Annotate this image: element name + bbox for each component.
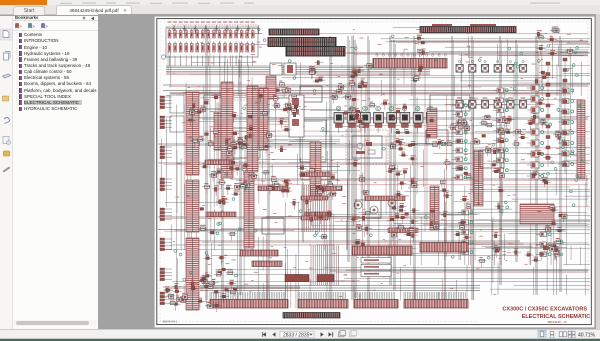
bookmarks tool (selected) (1, 29, 13, 40)
actuator stack SV2 (493, 88, 508, 173)
margin connector stub MS8 (160, 292, 172, 305)
resistor array RA5 (206, 212, 236, 217)
scan wash overlay (155, 17, 594, 327)
component cluster G9 (349, 160, 372, 250)
bottom bus lines (200, 286, 480, 291)
harness connector L4 (186, 92, 199, 175)
harness connector R3 (577, 100, 585, 178)
component cluster G2 (225, 112, 255, 155)
bookmark tree lines (13, 30, 98, 115)
continuous facing button (568, 331, 575, 338)
component cluster G30 (348, 98, 407, 132)
navigation icon strip (0, 16, 13, 329)
file button (orange) (0, 0, 47, 5)
bottom connector strip CS4 (420, 243, 468, 253)
component cluster G6 (261, 171, 299, 210)
resistor array RA4 (318, 186, 342, 191)
resistor array RA1 (205, 160, 231, 165)
terminal box T1 (170, 95, 184, 113)
power bus bar B1 (269, 29, 319, 35)
controller box U2 (300, 120, 326, 162)
component cluster G28 (456, 119, 513, 144)
harness connector L5 (186, 180, 199, 232)
module box U9 (426, 130, 448, 144)
wire mesh (161, 28, 590, 308)
margin connector stub MS5 (160, 208, 172, 221)
module box U7 (480, 150, 504, 168)
harness connector C4 (310, 142, 321, 200)
actuator stack SV3 (527, 85, 544, 179)
hyperlink annotation circles (174, 35, 583, 281)
component cluster G17 (257, 81, 299, 115)
bottom connector row CR2 (210, 292, 468, 308)
component cluster G26 (348, 64, 373, 89)
margin connector stub MS2 (160, 116, 172, 129)
component cluster G18 (482, 115, 527, 145)
module box U8 (355, 200, 381, 218)
component cluster G1 (186, 94, 221, 147)
component cluster G22 (427, 117, 471, 149)
panel header (13, 15, 98, 20)
link circle column (221, 95, 224, 148)
continuous view button (550, 331, 554, 338)
harness connector L6 (244, 172, 254, 248)
next page button (321, 332, 324, 337)
relay module row K1-K8 (334, 106, 436, 133)
controller box U1 (226, 128, 260, 158)
inner margin dashed line (160, 22, 588, 322)
bookmark entries (13, 32, 97, 38)
title block text (502, 306, 590, 324)
bottom connector strip CS1 (240, 250, 278, 256)
bottom connector strip CS3 (352, 246, 412, 255)
bookmarks panel (13, 16, 98, 329)
margin connector stub MS6 (160, 238, 172, 251)
harness connector R1 (430, 186, 439, 230)
harness connector C1 (221, 82, 233, 178)
svg-text:40.71%: 40.71% (578, 332, 596, 338)
resistor array RA2 (258, 186, 288, 191)
svg-text:2833 / 2835: 2833 / 2835 (283, 332, 310, 338)
facing view button (559, 331, 566, 336)
monitor box U4 (352, 136, 382, 158)
label box stack LB1 (361, 258, 391, 277)
junction boxes JB1 (270, 63, 296, 75)
resistor array RA6 (305, 212, 331, 217)
title block area (478, 295, 589, 324)
harness connector C5 (266, 76, 276, 99)
margin connector stub MS7 (160, 268, 172, 281)
monitor internals (356, 142, 375, 154)
margin connector stub MS3 (160, 146, 172, 159)
fuse panel F1-F32 (161, 22, 258, 67)
tab close button (123, 8, 127, 14)
terminal box T2 (170, 116, 184, 132)
component cluster G10 (386, 165, 419, 241)
component cluster G24 (390, 207, 440, 242)
last page button (329, 332, 334, 337)
module box U6 (300, 86, 322, 102)
bottom terminal block TB1 (285, 275, 334, 282)
harness connector C2 (247, 86, 258, 172)
component cluster G20 (163, 271, 237, 299)
actuator stack SV1 (452, 103, 467, 180)
center pin bundle PB0 (311, 245, 338, 285)
previous page button (272, 332, 275, 337)
menu text hints (50, 0, 590, 5)
component cluster G29 (535, 71, 565, 160)
component cluster G3 (263, 95, 301, 152)
margin connector stub MS1 (160, 96, 172, 109)
document tab bar (0, 5, 600, 16)
panel toolbar icons (13, 22, 98, 30)
schematic page sheet (154, 16, 595, 328)
component cluster G25 (307, 61, 325, 82)
bottom power bar PB1 (283, 313, 340, 319)
center cable bundle (301, 185, 328, 232)
connector strip X3 (373, 54, 447, 68)
panel horizontal scrollbar (14, 320, 97, 326)
first page button (262, 332, 266, 337)
component cluster G8 (203, 255, 236, 291)
power bus bar B2 (420, 24, 516, 33)
device box D1 (289, 95, 304, 137)
resistor array RA3 (300, 172, 330, 177)
status bar (0, 329, 600, 340)
junction box U5 (262, 218, 284, 234)
single page view button (selected) (538, 330, 546, 338)
switch panel U10 (204, 95, 222, 109)
horizontal trunk buses (158, 41, 588, 289)
schematic border frame (157, 19, 592, 325)
vertical scrollbar (596, 14, 600, 329)
dashed enclosure E1 (222, 100, 266, 162)
relay row K11-K16 (456, 60, 527, 72)
component cluster G16 (330, 80, 365, 123)
harness connector R4 (520, 204, 554, 224)
window bottom edge (0, 338, 600, 339)
component cluster G7 (298, 165, 341, 239)
margin connector stub MS4 (160, 178, 172, 191)
history buttons (339, 330, 346, 336)
relay row K17-K22 (456, 98, 527, 109)
connector strip X1 (268, 38, 336, 47)
gauge cluster M1 (354, 199, 396, 214)
component cluster G31 (411, 35, 429, 82)
controller box U3 (430, 95, 470, 111)
component cluster G11 (440, 159, 473, 244)
document background (98, 14, 600, 329)
component cluster G21 (166, 283, 229, 312)
actuator stack SV5 (458, 210, 473, 255)
active document tab (56, 5, 132, 15)
harness connector L8 (186, 238, 199, 310)
actuator stack SV6 (536, 232, 551, 257)
page number box (280, 331, 314, 338)
vertical trunk buses (206, 25, 562, 300)
start tab (13, 6, 45, 15)
component cluster G5 (224, 164, 258, 195)
component cluster G4 (198, 159, 241, 240)
application menu bar (0, 0, 600, 5)
main harness bundle (166, 66, 430, 75)
battery feed tree (170, 25, 262, 34)
component cluster G13 (526, 74, 552, 187)
harness connector RH1 (427, 108, 437, 138)
wire number labels (165, 29, 583, 299)
dashed enclosure E2 (346, 130, 388, 164)
component cluster G15 (388, 129, 418, 165)
resistor array RB1 (365, 196, 405, 201)
component cluster G23 (477, 243, 561, 267)
harness connector R2 (474, 150, 483, 206)
component cluster G12 (483, 146, 504, 238)
harness connector L7 (214, 112, 222, 150)
component cluster G14 (541, 204, 569, 261)
sensor chain SN1 (546, 58, 567, 174)
connector strip X2 (286, 47, 345, 57)
resistor array RB2 (388, 228, 418, 233)
bottom connector strip CS2 (252, 261, 282, 267)
component cluster G19 (535, 27, 574, 61)
harness connector C3 (259, 88, 268, 150)
actuator stack SV4 (558, 88, 574, 167)
